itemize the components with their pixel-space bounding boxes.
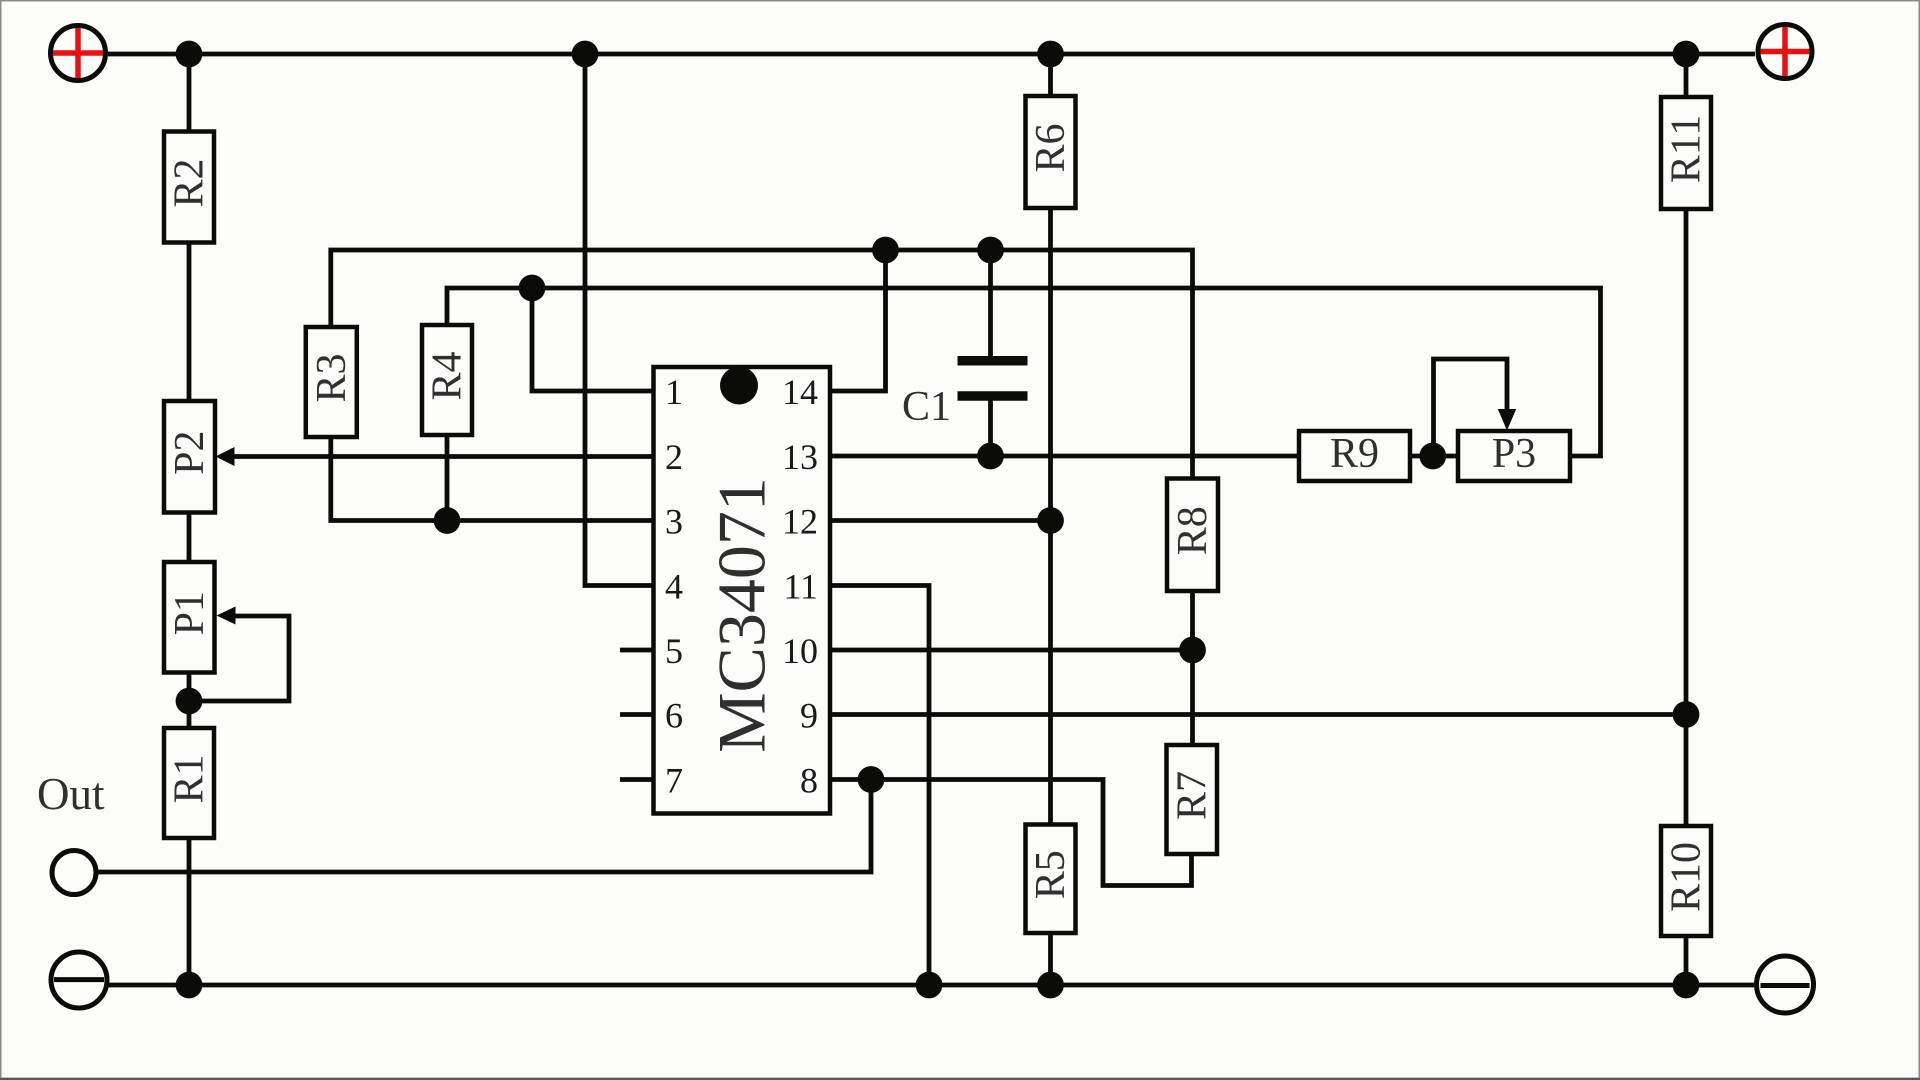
svg-text:14: 14 [782,372,818,412]
svg-text:R10: R10 [1664,842,1710,912]
svg-text:R7: R7 [1169,771,1215,820]
svg-text:7: 7 [665,761,683,801]
svg-text:MC34071: MC34071 [704,477,780,753]
svg-text:1: 1 [665,372,683,412]
svg-text:P1: P1 [167,591,213,635]
svg-text:R4: R4 [425,351,471,400]
svg-text:R11: R11 [1664,115,1710,183]
svg-text:6: 6 [665,696,683,736]
svg-text:5: 5 [665,631,683,671]
svg-text:4: 4 [665,567,683,607]
svg-text:R2: R2 [167,158,213,207]
svg-text:R6: R6 [1028,123,1074,172]
svg-text:Out: Out [37,769,105,819]
svg-text:P3: P3 [1492,431,1536,477]
svg-text:C1: C1 [902,384,951,430]
svg-text:R1: R1 [167,754,213,803]
svg-text:9: 9 [800,696,818,736]
svg-text:11: 11 [783,567,818,607]
svg-text:8: 8 [800,761,818,801]
svg-text:3: 3 [665,502,683,542]
svg-text:P2: P2 [167,431,213,475]
svg-text:12: 12 [782,502,818,542]
svg-text:10: 10 [782,631,818,671]
svg-text:2: 2 [665,437,683,477]
svg-text:R5: R5 [1028,850,1074,899]
svg-text:R3: R3 [309,353,355,402]
svg-text:R8: R8 [1170,506,1216,555]
svg-text:R9: R9 [1330,431,1379,477]
svg-text:13: 13 [782,437,818,477]
